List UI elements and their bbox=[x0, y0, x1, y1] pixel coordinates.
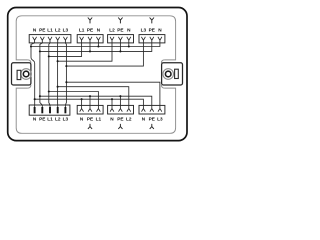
terminal block X7 body (N PE L3 bottom) bbox=[139, 105, 165, 114]
svg-text:PE: PE bbox=[87, 116, 93, 121]
mounting bracket right screw boss bbox=[163, 69, 174, 80]
feed contact L2 bbox=[57, 107, 59, 113]
clamp contacts X2 bbox=[80, 37, 101, 40]
svg-text:L1: L1 bbox=[96, 116, 102, 121]
wire X2 PE stub bbox=[89, 40, 91, 51]
feed contact PE bbox=[41, 107, 43, 113]
svg-text:PE: PE bbox=[39, 28, 45, 33]
wire N fan from X1 clamp to bus bbox=[31, 40, 35, 107]
enclosure inner wall upper loop bbox=[16, 16, 175, 60]
clamp contacts X4 bbox=[141, 37, 162, 40]
junction X3 PE bbox=[119, 50, 121, 52]
junction v5 L3 bus lower bbox=[65, 81, 67, 83]
svg-text:PE: PE bbox=[39, 116, 45, 121]
junction v3 L1 bus lower bbox=[48, 90, 50, 92]
wire L1 bus lower bbox=[49, 92, 99, 109]
terminal block X1 body (outgoing N PE L1 L2 L3 top left) bbox=[29, 35, 71, 43]
mounting bracket right outline bbox=[162, 63, 183, 85]
junction v2 PE bus upper bbox=[39, 50, 41, 52]
junction v5 L3 bus upper bbox=[65, 65, 67, 67]
svg-text:L3: L3 bbox=[63, 28, 69, 33]
terminal block X4 body (L3 PE N top) bbox=[139, 35, 165, 43]
terminal block X3 body (L2 PE N top) bbox=[108, 35, 134, 43]
junction X2 N bbox=[97, 45, 99, 47]
svg-text:N: N bbox=[97, 28, 101, 33]
feed contact L1 bbox=[49, 107, 51, 113]
junction v1 N bus upper bbox=[30, 45, 32, 47]
terminal block X5 body (N PE L1 bottom) bbox=[77, 105, 103, 114]
svg-text:N: N bbox=[80, 116, 84, 121]
svg-text:L1: L1 bbox=[47, 116, 53, 121]
svg-text:L3: L3 bbox=[157, 116, 163, 121]
junction X6 N bbox=[111, 98, 113, 100]
junction v4 L2 bus upper bbox=[57, 60, 59, 62]
mounting bracket left screw boss bbox=[21, 69, 32, 80]
mounting bracket left slot bbox=[17, 70, 21, 79]
wire X3 PE stub bbox=[119, 40, 121, 51]
terminal block X6 body (N PE L2 bottom) bbox=[108, 105, 134, 114]
wire X2 N stub bbox=[97, 40, 99, 47]
junction v1 N bus lower bbox=[34, 98, 36, 100]
wire L3 bus upper bbox=[66, 40, 143, 66]
mounting bracket right screw hole bbox=[165, 71, 171, 77]
clamp contacts X5 bbox=[80, 109, 101, 112]
wire L3 fan and vertical bbox=[65, 40, 66, 107]
svg-text:N: N bbox=[110, 116, 114, 121]
junction X5 N bbox=[81, 98, 83, 100]
svg-text:L3: L3 bbox=[63, 116, 69, 121]
junction v4 L2 bus lower bbox=[57, 86, 59, 88]
wall neck curve left top bbox=[28, 60, 31, 63]
svg-text:PE: PE bbox=[117, 28, 123, 33]
cable exit symbol X6 bbox=[118, 124, 122, 129]
mounting bracket left screw hole bbox=[23, 71, 29, 77]
wire N bus upper bbox=[31, 40, 160, 47]
terminal block X0 body (supply feed bottom left) bbox=[29, 105, 70, 115]
wire X5 N stub bbox=[81, 99, 83, 109]
svg-text:N: N bbox=[33, 116, 37, 121]
wire X5 PE stub bbox=[89, 96, 91, 109]
cable exit symbol X3 bbox=[118, 18, 122, 24]
wire PE bus upper bbox=[40, 40, 152, 51]
wire L2 bus upper bbox=[58, 40, 112, 61]
svg-text:PE: PE bbox=[87, 28, 93, 33]
wall neck curve left bottom bbox=[28, 85, 31, 88]
junction v3 L1 bus upper bbox=[48, 55, 50, 57]
cable exit symbol X7 bbox=[150, 124, 154, 129]
wire L1 bus upper bbox=[49, 40, 82, 56]
junction X6 PE bbox=[119, 95, 121, 97]
wire L3 bus lower bbox=[66, 82, 159, 109]
svg-text:L1: L1 bbox=[47, 28, 53, 33]
feed contact L3 bbox=[64, 107, 66, 113]
wire N bus lower bbox=[35, 99, 144, 109]
svg-text:L1: L1 bbox=[79, 28, 85, 33]
svg-text:L2: L2 bbox=[55, 28, 61, 33]
clamp contacts X6 bbox=[110, 109, 131, 112]
svg-text:L3: L3 bbox=[141, 28, 147, 33]
mounting bracket left outline bbox=[12, 63, 31, 85]
wire X6 N stub bbox=[111, 99, 113, 109]
terminal block X2 body (L1 PE N top) bbox=[77, 35, 103, 43]
svg-text:PE: PE bbox=[117, 116, 123, 121]
wire X3 N stub bbox=[128, 40, 130, 47]
svg-text:L2: L2 bbox=[126, 116, 132, 121]
svg-text:N: N bbox=[158, 28, 162, 33]
junction X2 PE bbox=[89, 50, 91, 52]
svg-text:L2: L2 bbox=[109, 28, 115, 33]
wall neck curve right bottom bbox=[161, 85, 164, 88]
enclosure outer wall bbox=[8, 8, 187, 141]
cable exit symbol X5 bbox=[88, 124, 92, 129]
feed contact N bbox=[34, 107, 36, 113]
clamp contacts X1 bbox=[33, 37, 68, 40]
wire PE fan and vertical bbox=[40, 40, 42, 107]
wire X6 PE stub bbox=[119, 96, 121, 109]
junction X5 PE bbox=[89, 95, 91, 97]
svg-text:N: N bbox=[33, 28, 37, 33]
wire L2 fan and vertical bbox=[57, 40, 59, 107]
svg-text:L2: L2 bbox=[55, 116, 61, 121]
clamp contacts X3 bbox=[110, 37, 131, 40]
wall neck curve right top bbox=[161, 60, 164, 63]
junction v2 PE bus lower bbox=[39, 95, 41, 97]
wire L1 fan and vertical bbox=[49, 40, 50, 107]
wire L2 bus lower bbox=[58, 87, 129, 109]
svg-text:N: N bbox=[142, 116, 146, 121]
clamp contacts X7 bbox=[142, 109, 162, 112]
junction X3 N bbox=[128, 45, 130, 47]
cable exit symbol X2 bbox=[88, 18, 92, 24]
mounting bracket right slot bbox=[175, 69, 179, 78]
enclosure inner wall lower loop bbox=[16, 88, 175, 133]
svg-text:PE: PE bbox=[149, 28, 155, 33]
svg-text:PE: PE bbox=[149, 116, 155, 121]
cable exit symbol X4 bbox=[150, 18, 154, 24]
wire PE bus lower bbox=[40, 96, 152, 109]
svg-text:N: N bbox=[127, 28, 131, 33]
